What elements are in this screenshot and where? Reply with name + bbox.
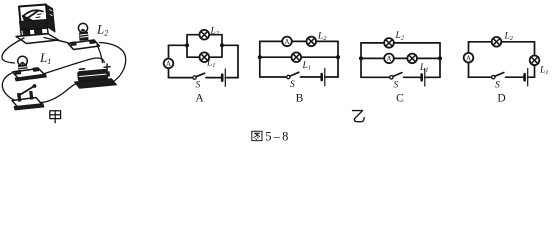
lamp L1 of B: [292, 52, 302, 62]
svg-text:L1: L1: [539, 66, 549, 77]
switch S of A: [193, 76, 196, 79]
battery of C: [420, 74, 423, 80]
battery cells: [78, 69, 111, 81]
svg-text:L2: L2: [210, 27, 220, 38]
svg-text:L2: L2: [504, 32, 514, 43]
switch S of C: [390, 76, 393, 79]
label 乙: [353, 111, 365, 122]
svg-text:L1: L1: [419, 63, 429, 74]
node right C: [438, 56, 442, 60]
lamp L2 of C: [384, 38, 394, 48]
caption 图 5-8: [252, 131, 262, 140]
svg-text:L1: L1: [39, 50, 51, 66]
wire L1 base over battery to +: [45, 58, 105, 73]
wire mid left A: [169, 44, 188, 46]
wire L2 base around right to battery plate (outer): [100, 43, 126, 83]
svg-text:D: D: [497, 92, 505, 104]
battery of A: [221, 75, 224, 81]
node left A: [185, 43, 189, 47]
wire L2 base to battery + (inner): [97, 45, 103, 63]
lamp L1 bulb: [18, 56, 28, 72]
node right B: [336, 55, 340, 59]
svg-text:A: A: [284, 38, 289, 46]
ammeter terminal block: [21, 28, 49, 37]
wire left rail A: [168, 45, 170, 58]
lamp L2 of B: [307, 37, 317, 47]
wire left rail B: [259, 41, 261, 77]
wire right rail D: [534, 42, 536, 77]
svg-text:L2: L2: [96, 22, 108, 38]
switch S of D: [492, 76, 495, 79]
wire ammeter to L2 base: [44, 38, 68, 43]
lamp L1 of A: [200, 52, 210, 62]
svg-text:S: S: [196, 81, 201, 91]
lamp L2 base: [68, 40, 100, 50]
svg-text:A: A: [386, 55, 391, 63]
node right A: [220, 43, 224, 47]
svg-text:L2: L2: [317, 32, 327, 43]
wire top B: [260, 40, 338, 42]
svg-text:L1: L1: [206, 59, 216, 70]
ammeter dark band: [20, 20, 48, 31]
wire bottom C: [361, 76, 390, 78]
wire left rail D: [468, 42, 470, 77]
ammeter of D: [464, 53, 474, 63]
switch S of B: [287, 75, 290, 78]
svg-text:A: A: [166, 60, 171, 68]
node left C: [359, 56, 363, 60]
wire bottom A: [169, 77, 193, 79]
wire switch to battery plate: [40, 84, 76, 103]
svg-text:S: S: [290, 80, 295, 90]
ammeter of C: [384, 54, 394, 64]
svg-text:C: C: [396, 92, 404, 104]
wire bottom B: [260, 76, 287, 78]
wire ammeter left terminal down to L1 socket: [2, 38, 24, 63]
wire top C: [361, 42, 440, 44]
battery plate: [75, 79, 117, 88]
svg-text:5–8: 5–8: [265, 130, 290, 144]
battery of D: [523, 74, 526, 80]
ammeter stand base: [16, 34, 59, 44]
svg-text:A: A: [466, 54, 471, 62]
svg-text:S: S: [394, 81, 399, 91]
label 甲: [50, 111, 61, 123]
lamp L1 of C: [407, 54, 417, 64]
lamp L2 of A: [200, 30, 210, 40]
wire bottom D: [469, 76, 492, 78]
knife switch: [12, 85, 44, 110]
wire parallel box A: [187, 35, 222, 46]
lamp L1 of D: [530, 56, 540, 66]
wire right rail A: [237, 45, 239, 77]
lamp L2 of D: [492, 37, 502, 47]
svg-text:L1: L1: [302, 61, 312, 72]
wire mid B: [260, 56, 338, 58]
lamp L1 base: [13, 68, 47, 81]
svg-text:B: B: [296, 92, 304, 104]
wire L1 base to switch: [2, 73, 15, 101]
wire mid C: [361, 57, 440, 59]
node left B: [258, 55, 262, 59]
svg-text:S: S: [495, 81, 500, 91]
svg-text:A: A: [195, 92, 204, 104]
ammeter meter face: [19, 5, 48, 23]
wire mid right A: [222, 44, 238, 46]
wire right rail C: [439, 43, 441, 77]
lamp L2 bulb: [78, 23, 88, 40]
wire top D: [469, 41, 535, 43]
ammeter side panel: [46, 5, 55, 33]
ammeter of B: [282, 37, 292, 47]
wire right rail B: [337, 41, 339, 77]
plus sign: [104, 64, 110, 70]
wire left rail C: [360, 43, 362, 77]
svg-text:L2: L2: [395, 31, 405, 42]
battery of B: [320, 74, 323, 80]
ammeter A1: [164, 59, 174, 69]
minus sign: [80, 68, 85, 71]
